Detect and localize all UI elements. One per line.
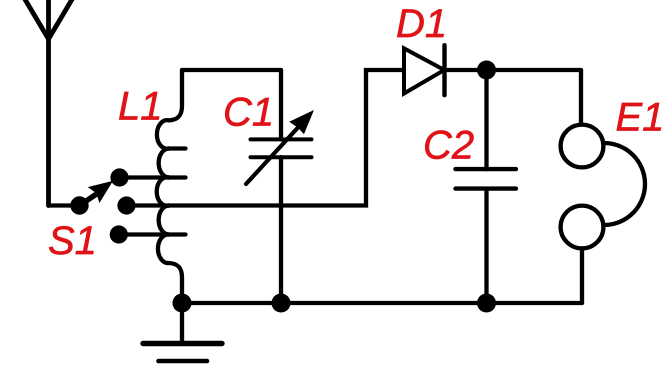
switch S1 wiper arrow (80, 182, 113, 206)
junction dot (C1 bottom) (272, 294, 291, 313)
switch S1 contact dot 2 (117, 196, 135, 214)
switch S1 contact dot 1 (110, 168, 128, 186)
wire tap 1 (contact 1 to L1 upper tap) (120, 175, 186, 179)
junction dot (L1 bottom / ground) (173, 294, 192, 313)
wire bottom rail (ground bus) (182, 301, 582, 305)
svg-text:C1: C1 (223, 91, 274, 135)
inductor L1 (157, 70, 186, 303)
earphone E1 (561, 70, 645, 303)
svg-text:L1: L1 (118, 85, 163, 129)
antenna (23, 0, 74, 206)
switch S1 pole terminal dot (70, 196, 88, 214)
wire antenna lead to switch pole (49, 203, 80, 207)
wire top rail (L1 top to C1 top) (182, 68, 281, 72)
switch S1 contact dot 3 (110, 225, 128, 243)
svg-text:S1: S1 (48, 219, 97, 263)
diode D1 (404, 45, 445, 95)
wire tap 2 (contact 2 through L1 middle tap to diode D1 anode) (127, 70, 405, 206)
svg-text:E1: E1 (616, 96, 665, 140)
svg-text:D1: D1 (396, 2, 447, 46)
wire D1 cathode to E1 branch (443, 68, 581, 72)
capacitor C1 (variable) (246, 70, 313, 303)
capacitor C2 (456, 70, 516, 303)
node junction dot (D1 cathode / C2 top) (477, 61, 496, 80)
svg-text:C2: C2 (423, 124, 474, 168)
junction dot (C2 bottom) (477, 294, 496, 313)
wire tap 3 (contact 3 to L1 lower tap) (119, 232, 186, 236)
ground (143, 303, 222, 361)
